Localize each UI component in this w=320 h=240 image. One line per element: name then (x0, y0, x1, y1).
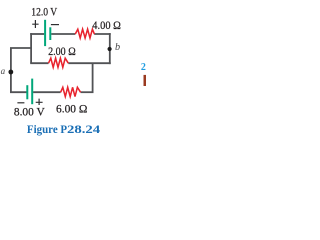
svg-text:28.: 28. (141, 62, 146, 73)
svg-text:6.00 Ω: 6.00 Ω (56, 104, 87, 116)
svg-text:12.0 V: 12.0 V (31, 6, 57, 18)
svg-text:4.00 Ω: 4.00 Ω (92, 20, 121, 32)
svg-text:2.00 Ω: 2.00 Ω (48, 46, 76, 58)
svg-text:Figure P: Figure P (27, 122, 67, 136)
svg-text:b: b (115, 42, 120, 53)
svg-text:28.24: 28.24 (67, 122, 100, 136)
svg-text:a: a (1, 66, 6, 76)
svg-text:8.00 V: 8.00 V (14, 106, 45, 118)
